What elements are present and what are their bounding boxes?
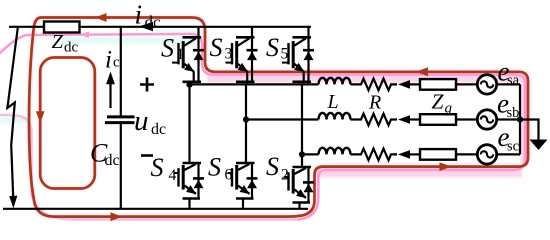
svg-text:1: 1 (177, 46, 185, 63)
svg-text:i: i (105, 47, 112, 74)
black arrowhead on phase b wire (398, 115, 410, 124)
source e_sc (AC source circle) (477, 145, 496, 164)
resistor R phase b (351, 114, 398, 126)
leg c midpoint wire down to S2 (301, 82, 303, 167)
svg-text:L: L (327, 91, 339, 113)
impedance Z_g box phase a (420, 79, 456, 90)
load branch (lightning arrow) (7, 28, 17, 198)
svg-text:dc: dc (64, 39, 79, 55)
svg-text:u: u (134, 105, 149, 137)
red arrowhead on inner loop left side (36, 111, 45, 123)
svg-text:i: i (135, 0, 143, 30)
resistor R phase c (351, 149, 398, 161)
red arrowhead on top bus segment (i_dc direction) (95, 13, 107, 22)
plus sign (u_dc polarity) (140, 78, 154, 92)
S6 emitter stub to bottom bus (242, 199, 244, 209)
inner red loop (capacitor current loop) (40, 58, 95, 189)
black arrowhead on phase c wire (398, 150, 410, 159)
source e_sb (AC source circle) (477, 110, 496, 129)
phase a wire (190, 83, 319, 85)
S4 emitter stub to bottom bus (188, 199, 190, 209)
S1 collector stub from bus (197, 27, 199, 38)
node phase a junction dot (186, 82, 192, 88)
red arrowhead on phase-a segment (416, 67, 429, 76)
cyan artifact band under top pink line (63, 37, 195, 45)
black arrowhead on phase a wire (398, 80, 410, 89)
svg-text:sa: sa (507, 73, 520, 89)
svg-text:S: S (266, 33, 279, 62)
pink halo glow of inner loop (40, 58, 95, 189)
inductor L phase b (319, 113, 351, 120)
node phase c junction dot (299, 151, 305, 157)
svg-text:3: 3 (225, 46, 233, 63)
pink current loop (second highlighted path) (0, 34, 525, 220)
inductor L phase c (319, 148, 351, 155)
svg-text:dc: dc (145, 13, 162, 32)
svg-text:Z: Z (432, 90, 445, 114)
red arrowhead on bottom segment (111, 212, 123, 221)
highlight band between red loop and phase-a wire (207, 74, 522, 83)
svg-text:6: 6 (225, 167, 233, 184)
resistor Z_dc (box on top bus) (44, 22, 80, 33)
impedance Z_g box phase b (420, 114, 456, 125)
source e_sa (AC source circle) (477, 75, 496, 94)
node phase b junction dot (243, 116, 249, 122)
phase c wire (302, 153, 319, 155)
transistor S6 (IGBT with antiparallel diode) (228, 163, 258, 199)
svg-text:g: g (445, 101, 453, 117)
svg-text:sc: sc (507, 139, 519, 155)
leg a midpoint wire down to S4 (188, 82, 190, 163)
svg-text:dc: dc (105, 152, 120, 169)
transistor S5 (IGBT with antiparallel diode) (282, 37, 314, 82)
black arrowhead on top bus (i_dc) (139, 22, 153, 31)
pink halo glow of red loop (29, 18, 528, 217)
red arrowhead on phase-c segment (440, 162, 452, 171)
transistor S3 (IGBT with antiparallel diode) (226, 37, 258, 82)
pink arrowhead on top pink line (81, 31, 90, 38)
svg-text:c: c (113, 55, 120, 71)
svg-text:dc: dc (151, 121, 166, 138)
highlight band below phase-c red loop line (314, 168, 522, 178)
svg-text:2: 2 (281, 167, 289, 184)
svg-text:S: S (161, 34, 174, 63)
svg-text:sb: sb (507, 105, 520, 121)
svg-text:S: S (151, 153, 164, 182)
S3 collector stub from bus (251, 27, 253, 38)
red current loop (outer conduction path) (29, 18, 528, 217)
transistor S1 (IGBT with antiparallel diode) (172, 37, 204, 82)
minus sign (u_dc polarity) (141, 154, 153, 157)
source neutral bus (right vertical wire) (519, 84, 521, 154)
svg-text:S: S (210, 33, 223, 62)
leg b midpoint wire down to S6 (245, 82, 247, 163)
capacitor C_dc branch: upper wire (120, 27, 122, 116)
transistor S4 (IGBT with antiparallel diode) (174, 163, 204, 199)
impedance Z_g box phase c (420, 149, 456, 160)
inductor L phase a (319, 78, 351, 85)
svg-text:Z: Z (52, 31, 64, 53)
node neutral junction dot (517, 116, 523, 122)
top DC bus wire (9, 26, 311, 28)
ground symbol (530, 140, 548, 151)
svg-text:S: S (266, 152, 279, 181)
i_c arrow (109, 83, 111, 108)
cyan artifact band at left mid edge (0, 117, 28, 124)
svg-text:R: R (368, 92, 381, 114)
S2 emitter stub to bottom bus (298, 203, 300, 209)
capacitor C_dc lower wire (120, 124, 122, 209)
svg-text:S: S (208, 153, 221, 182)
pale pink return segment of second path (0, 115, 298, 220)
phase b wire (246, 118, 319, 120)
bottom DC bus wire (3, 208, 308, 210)
svg-text:4: 4 (169, 167, 177, 184)
svg-text:5: 5 (281, 46, 289, 63)
resistor R phase a (351, 79, 398, 91)
S5 collector stub from bus (307, 27, 309, 38)
ground wire (520, 120, 539, 141)
capacitor C_dc plates (107, 115, 135, 118)
highlight band right of source bus (520, 76, 527, 164)
transistor S2 (IGBT with antiparallel diode) (284, 167, 314, 203)
